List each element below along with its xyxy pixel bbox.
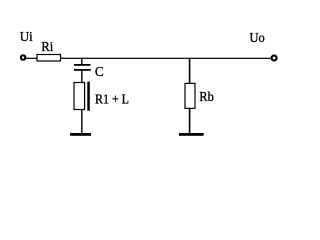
wire R1-to-ground — [81, 110, 82, 134]
svg-text:R1 + L: R1 + L — [95, 93, 129, 108]
wire Rb-to-ground — [189, 108, 191, 133]
resistor Rb — [185, 83, 195, 108]
node Rb junction / wire down — [189, 58, 191, 83]
wire terminal-to-Ri — [26, 58, 37, 59]
svg-text:C: C — [95, 65, 104, 80]
svg-text:Uo: Uo — [250, 31, 265, 46]
svg-text:Rb: Rb — [199, 90, 214, 105]
terminal Ui — [21, 55, 25, 59]
resistor Ri — [37, 55, 61, 62]
wire capacitor-to-R1 — [81, 71, 82, 83]
node capacitor junction / wire down — [81, 58, 82, 65]
terminal Uo — [272, 56, 277, 61]
resistor R1 — [74, 83, 85, 110]
wire Ri-to-output — [61, 58, 271, 59]
inductor bar L — [87, 82, 90, 111]
svg-text:Ri: Ri — [41, 40, 53, 55]
ground right — [179, 133, 204, 136]
capacitor C — [74, 64, 91, 71]
ground left — [70, 133, 91, 136]
svg-text:Ui: Ui — [20, 30, 33, 45]
